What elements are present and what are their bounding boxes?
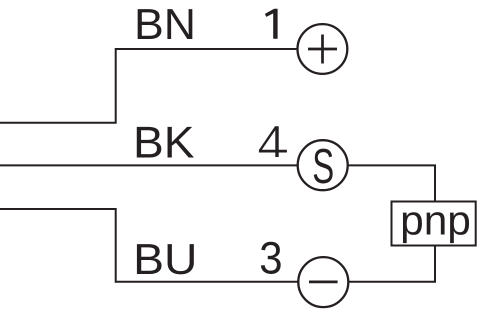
svg-text:BN: BN: [134, 1, 196, 49]
svg-text:BK: BK: [133, 118, 195, 167]
svg-text:pnp: pnp: [400, 197, 471, 244]
svg-text:3: 3: [259, 233, 282, 284]
svg-text:S: S: [312, 139, 334, 194]
svg-text:BU: BU: [133, 236, 197, 284]
